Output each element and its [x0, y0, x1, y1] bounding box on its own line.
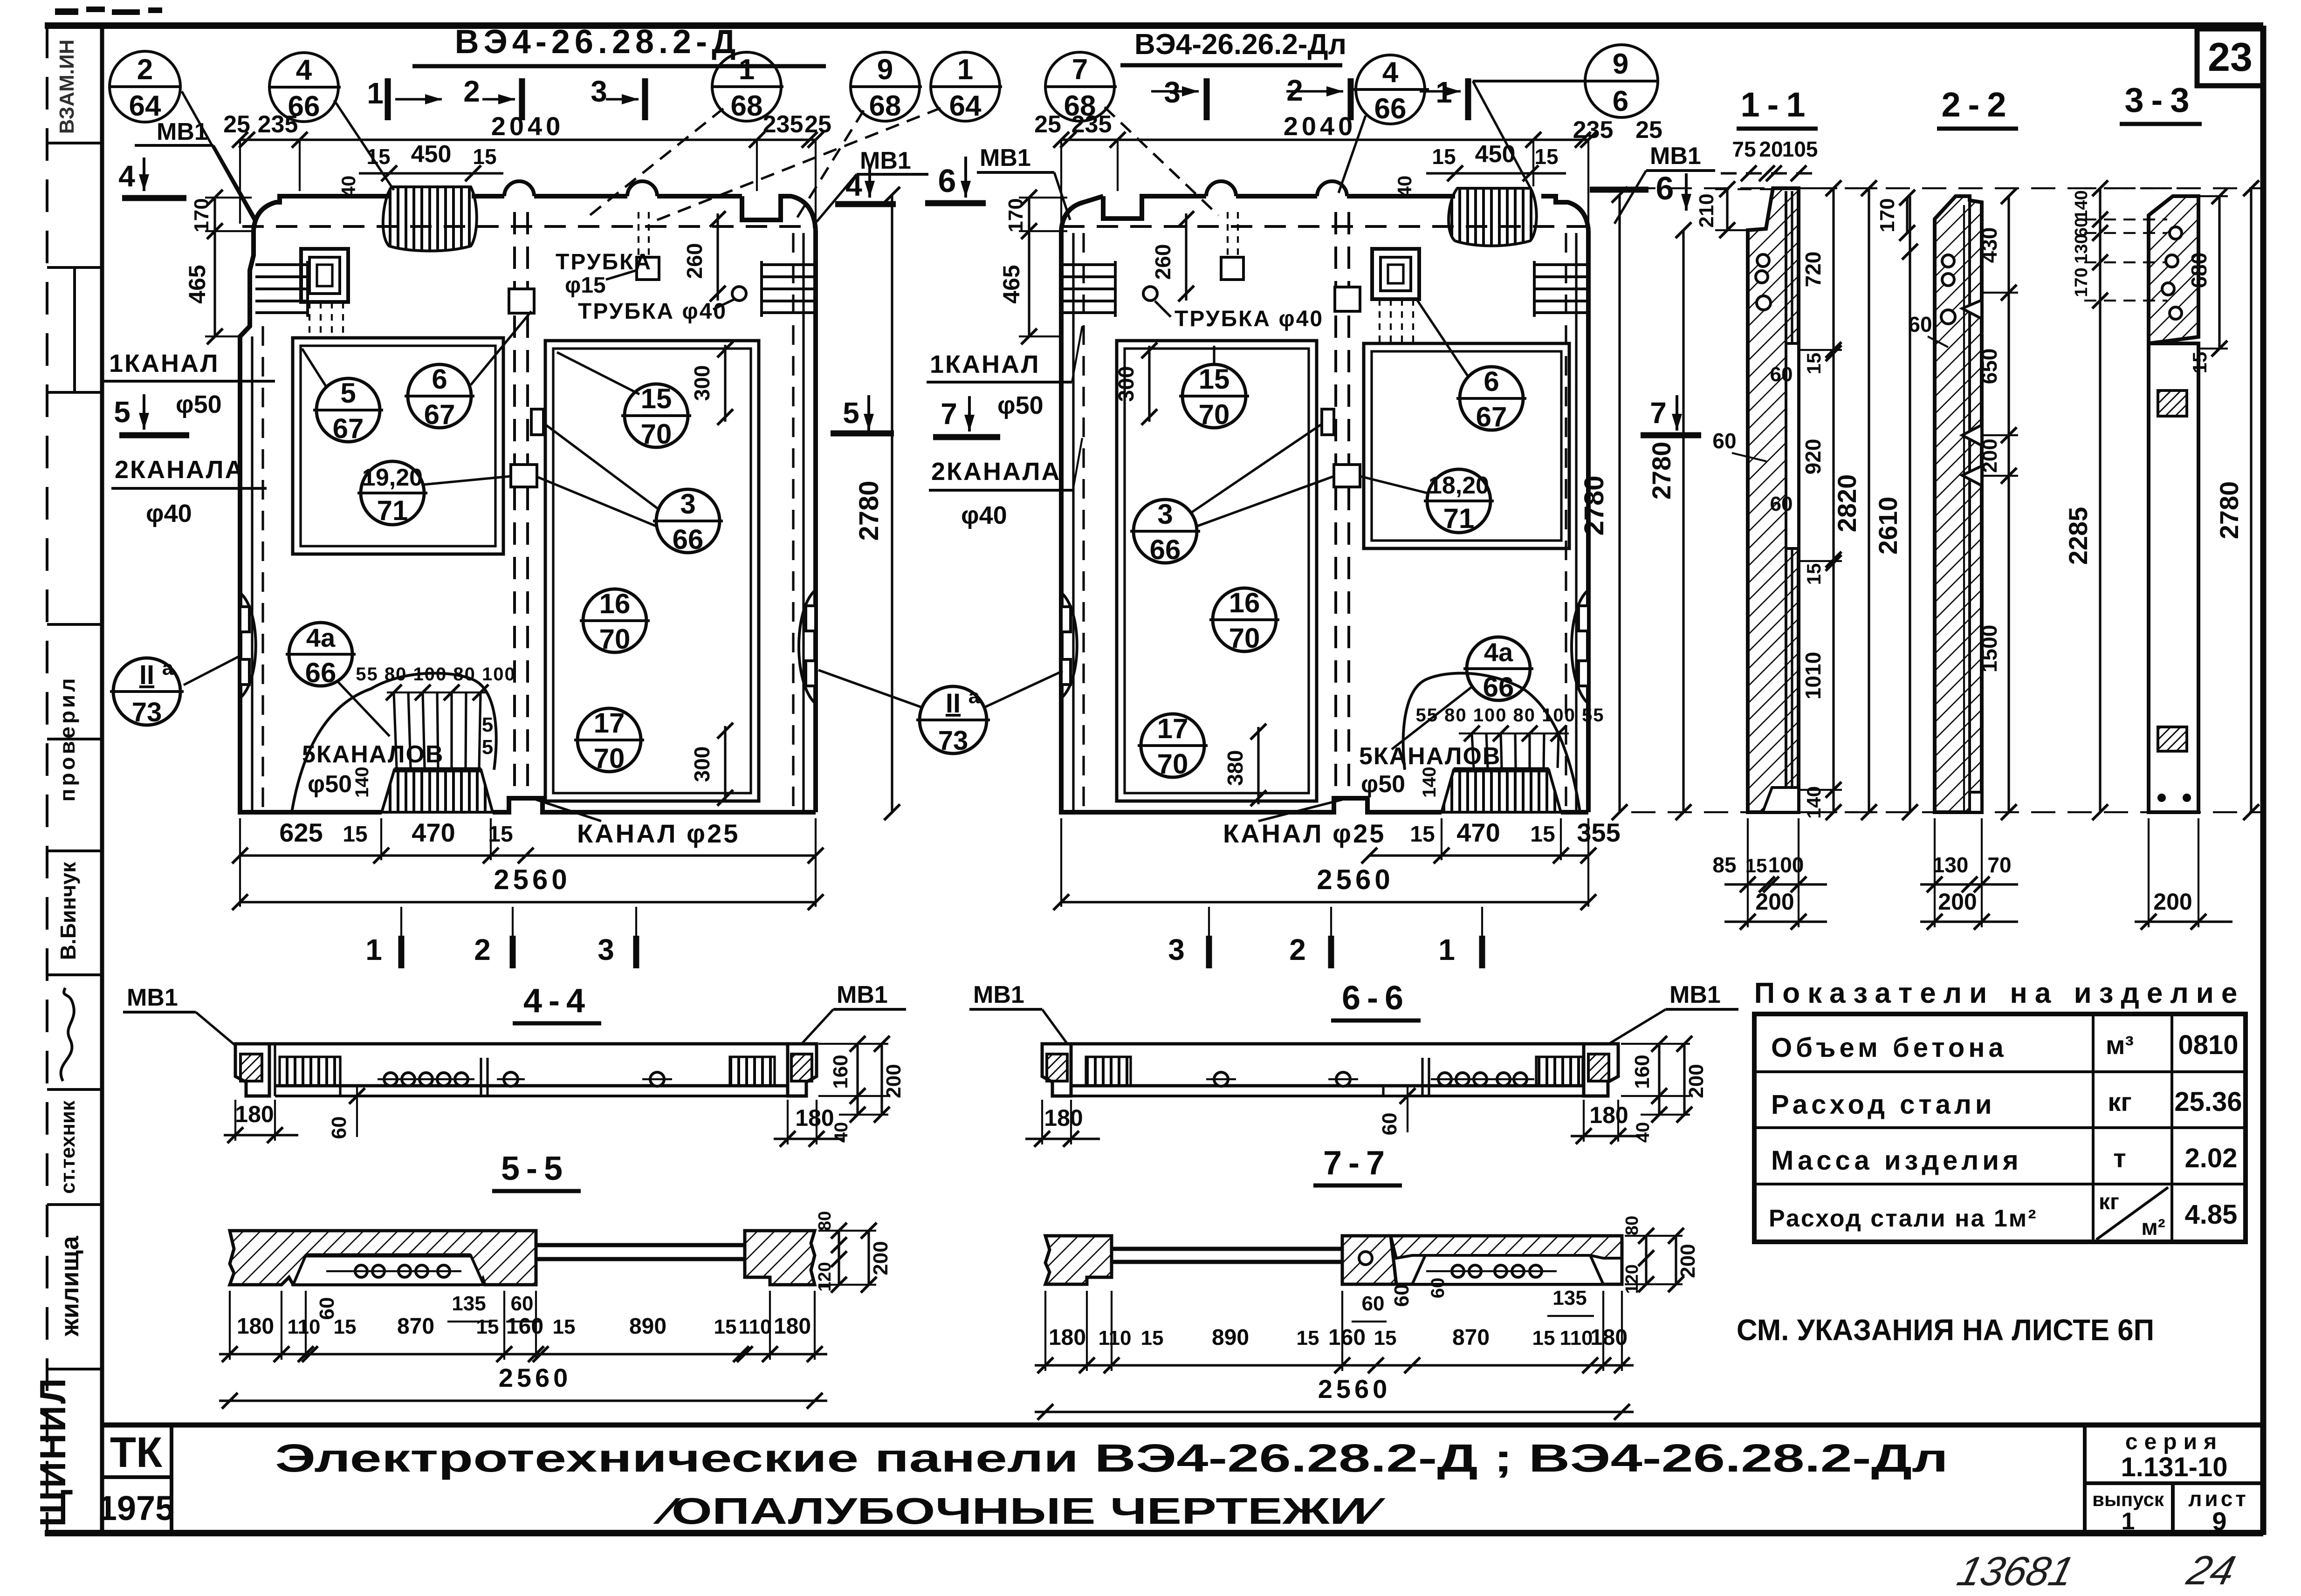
svg-text:66: 66	[1483, 671, 1514, 703]
section 3-3 lower strip	[2149, 343, 2198, 812]
svg-text:300: 300	[1114, 366, 1138, 402]
svg-text:Показатели на изделие: Показатели на изделие	[1754, 977, 2245, 1009]
top section mark 3 (panel1)	[591, 75, 645, 120]
svg-text:т: т	[2113, 1144, 2126, 1173]
svg-text:200: 200	[869, 1241, 892, 1275]
svg-text:64: 64	[129, 90, 161, 122]
svg-text:1975: 1975	[98, 1489, 175, 1528]
section 2-2 right dim stack 430/650/200/1500	[1977, 188, 2018, 820]
svg-text:15: 15	[366, 144, 390, 169]
panel2 dim 260 vertical	[1151, 211, 1194, 301]
panel2 callout IIa/73 middle	[818, 670, 1063, 756]
svg-text:15: 15	[1199, 363, 1230, 395]
panel1 callout 17/70	[574, 707, 644, 774]
svg-text:2: 2	[1289, 933, 1306, 966]
section 3-3 dim 680 right	[2187, 188, 2228, 373]
svg-text:5КАНАЛОВ: 5КАНАЛОВ	[1359, 743, 1501, 770]
svg-text:170: 170	[1876, 198, 1899, 232]
section 1-1 header	[1737, 85, 1818, 129]
svg-text:9: 9	[2212, 1507, 2226, 1536]
svg-text:180: 180	[795, 1105, 834, 1131]
title block top line	[102, 1423, 2263, 1428]
section 6-6 right rib hatch	[1536, 1057, 1583, 1086]
svg-text:235: 235	[1072, 111, 1112, 138]
section 2-2 dim 170	[1876, 190, 1915, 241]
svg-text:180: 180	[1044, 1105, 1083, 1131]
svg-text:1500: 1500	[1977, 625, 2001, 672]
svg-text:6: 6	[938, 163, 956, 199]
panel1 callout IIa/73 left	[110, 656, 240, 727]
svg-text:В.Бинчук: В.Бинчук	[56, 862, 80, 960]
svg-text:80: 80	[815, 1211, 835, 1231]
МВ1 label mid-right (points to panel2 left corner)	[977, 144, 1070, 220]
panel1 dim 300 upper	[690, 342, 733, 425]
page number box 23	[2197, 29, 2263, 86]
panel2 junction box 1	[1335, 287, 1360, 311]
panel2 tube circle Ф40	[1143, 287, 1157, 301]
svg-text:70: 70	[1157, 748, 1188, 780]
svg-text:3: 3	[1168, 933, 1185, 966]
panel2 left edge break bulge	[1061, 593, 1077, 698]
panel2 bottom trapezoid channel fan	[1442, 770, 1561, 812]
svg-text:75: 75	[1732, 137, 1756, 161]
section 7-7 right part with top band	[1391, 1236, 1622, 1284]
section 5-5 right dims 20 80 200	[815, 1211, 892, 1293]
panel2 bottom section marks 3 2 1	[1168, 907, 1482, 968]
section 4-4 dim 60	[328, 1086, 365, 1139]
svg-text:170: 170	[190, 198, 213, 232]
svg-text:200: 200	[1685, 1064, 1708, 1098]
panel1 bottom section marks 1 2 3	[365, 907, 636, 968]
panel2 right edge inner line	[1575, 233, 1577, 812]
svg-text:4: 4	[845, 169, 862, 202]
svg-text:жилища: жилища	[56, 1235, 84, 1336]
section 6-6 dim 180 right	[1571, 1100, 1641, 1144]
panel1 ТРУБКА Ф15 label	[556, 250, 652, 298]
svg-text:Объем бетона: Объем бетона	[1771, 1033, 2007, 1063]
section 3-3 left dim stack 140 60 130 170	[2072, 180, 2172, 322]
section 6-6 left rib hatch	[1086, 1057, 1131, 1086]
svg-text:1: 1	[1438, 933, 1455, 966]
section 3-3 wood insert top	[2158, 390, 2187, 416]
svg-text:25.36: 25.36	[2174, 1087, 2242, 1117]
panel2 callout 16/70	[1209, 587, 1279, 654]
section 2-2 body	[1935, 196, 1982, 812]
section 6-6 strip body	[1071, 1044, 1588, 1096]
panel1 callout 4a/66	[286, 623, 390, 736]
section 4-4 right dims 160/200/40	[818, 1036, 905, 1143]
panel1 bottom trapezoid channel fan	[382, 770, 493, 812]
svg-text:40: 40	[337, 176, 359, 198]
svg-text:16: 16	[599, 588, 631, 619]
svg-text:2: 2	[463, 75, 480, 108]
svg-text:4: 4	[296, 54, 312, 86]
svg-text:450: 450	[1475, 141, 1516, 168]
title block ТК box	[102, 1425, 172, 1533]
panel1 top dim line 2040/235/25	[223, 111, 831, 224]
svg-text:68: 68	[731, 90, 763, 122]
svg-text:КАНАЛ φ25: КАНАЛ φ25	[577, 819, 740, 848]
svg-text:19,20: 19,20	[362, 464, 423, 491]
svg-text:355: 355	[1577, 818, 1620, 847]
section 7-7 dim row	[1035, 1291, 1634, 1373]
section 7-7 right dims 20 80 200	[1622, 1216, 1699, 1294]
panel2 callout 4a/66	[1392, 637, 1533, 749]
svg-text:140: 140	[2072, 190, 2091, 219]
panel1 section mark 5 left	[114, 394, 189, 435]
frame right border	[2260, 26, 2267, 1535]
svg-text:2КАНАЛА: 2КАНАЛА	[115, 456, 245, 484]
svg-text:2560: 2560	[499, 1363, 572, 1392]
svg-text:15: 15	[476, 1315, 499, 1338]
panel2 right edge break bulge	[1572, 590, 1588, 704]
svg-text:15: 15	[2189, 352, 2211, 374]
svg-text:60: 60	[1362, 1292, 1385, 1315]
section mark 6 left	[925, 157, 986, 203]
panel1 top notch semicircle B	[627, 181, 657, 196]
section 2-2 header	[1937, 85, 2018, 129]
section 1-1 bottom dims 85 15 100 / 200	[1712, 818, 1827, 930]
section 6-6 right dims 160/200/40	[1621, 1036, 1708, 1143]
svg-text:120: 120	[1622, 1264, 1642, 1294]
panel1 top-right corner rib lines	[762, 261, 814, 317]
section 2-2 notch top	[1962, 300, 1982, 319]
svg-text:5: 5	[482, 713, 493, 736]
svg-text:φ40: φ40	[146, 500, 192, 527]
section 2-2 dim 2610	[1873, 196, 1918, 820]
panel1 section mark 5 right	[831, 395, 894, 433]
svg-text:73: 73	[132, 697, 162, 727]
svg-text:1010: 1010	[1801, 652, 1825, 699]
svg-text:2285: 2285	[2063, 507, 2093, 565]
svg-text:160: 160	[506, 1314, 543, 1339]
svg-text:120: 120	[815, 1262, 835, 1291]
panel2 dim 300 upper	[1114, 342, 1157, 425]
svg-text:ВЗАМ.ИН: ВЗАМ.ИН	[55, 40, 78, 134]
svg-text:200: 200	[1755, 889, 1794, 915]
svg-text:25: 25	[223, 111, 250, 138]
svg-text:6: 6	[432, 363, 447, 395]
svg-text:55 80 100 80 100: 55 80 100 80 100	[356, 664, 515, 685]
section 7-7 thin band	[1112, 1249, 1342, 1262]
svg-text:60: 60	[1712, 429, 1736, 453]
svg-text:2040: 2040	[491, 111, 564, 141]
panel1 top dashed axis line	[242, 225, 814, 228]
panel1 left edge dashed groove	[261, 326, 264, 811]
svg-text:2780: 2780	[1579, 475, 1609, 535]
svg-text:15: 15	[553, 1315, 576, 1338]
svg-text:4.85: 4.85	[2185, 1199, 2238, 1230]
panel1 bottom dim 2560	[232, 818, 824, 910]
section 5-5 thin band	[536, 1245, 745, 1259]
panel2 section mark 7 right	[1641, 395, 1701, 435]
МВ1 label far right (points to panel2 right corner)	[1614, 143, 1715, 224]
panel1 top channel fan block	[383, 187, 477, 251]
panel2 top dashed axis line	[1063, 225, 1587, 228]
section 5-5 left hatched block	[230, 1231, 536, 1285]
МВ1 label top-left	[135, 118, 257, 221]
section 4-4 МВ1 label left	[123, 984, 237, 1047]
svg-text:МВ1: МВ1	[973, 981, 1024, 1008]
svg-text:70: 70	[1987, 853, 2011, 877]
panel2 ТРУБКА Ф40 label	[1155, 301, 1324, 331]
panel1 fan small dim row 55 80 100 80 100	[356, 664, 515, 759]
panel2 top notch semicircle A	[1206, 181, 1236, 196]
torn edge marks top-left	[55, 7, 162, 15]
svg-text:70: 70	[1199, 399, 1230, 430]
svg-text:260: 260	[1151, 244, 1175, 280]
svg-text:73: 73	[938, 726, 968, 756]
section mark 7 left	[933, 396, 1000, 437]
svg-text:ТРУБКА φ40: ТРУБКА φ40	[578, 299, 727, 324]
svg-text:1: 1	[365, 933, 382, 966]
svg-text:15: 15	[641, 383, 672, 414]
top section mark 1 (panel1)	[367, 76, 442, 120]
panel1 left edge break bulge	[240, 593, 256, 698]
svg-text:1-1: 1-1	[1741, 85, 1813, 124]
section 2-2 notch mid	[1962, 425, 1982, 445]
section 1-1 rebar circles	[1757, 254, 1769, 267]
panel1 bottom dim row 625/15/470/15	[232, 800, 824, 863]
svg-text:67: 67	[1476, 401, 1507, 432]
frame inner-left border	[100, 26, 104, 1533]
svg-text:4a: 4a	[1484, 637, 1513, 667]
svg-text:80: 80	[1622, 1216, 1642, 1235]
panel1 dashed drop from notch B to tube box	[639, 212, 649, 257]
section 1-1 60 labels	[1712, 363, 1793, 515]
svg-text:60: 60	[1390, 1284, 1413, 1307]
svg-text:720: 720	[1801, 252, 1825, 288]
svg-text:465: 465	[998, 265, 1024, 303]
svg-text:МВ1: МВ1	[127, 984, 178, 1011]
section 5-5 dim 2560	[219, 1363, 827, 1409]
panel2 left edge dashed groove	[1082, 233, 1085, 811]
panel2 fan break blob outline	[1403, 673, 1580, 812]
svg-text:II: II	[946, 688, 961, 719]
svg-text:60: 60	[1770, 363, 1793, 386]
section 1-1 dim 2820	[1800, 180, 1877, 820]
panel1 junction box 2	[511, 465, 537, 487]
svg-text:890: 890	[1212, 1325, 1249, 1350]
header ВЭ4-26.26.2-Дл	[1120, 28, 1346, 65]
svg-text:180: 180	[235, 1101, 274, 1127]
panel2 top channel fan block	[1449, 188, 1537, 246]
svg-text:выпуск: выпуск	[2092, 1488, 2164, 1510]
svg-text:180: 180	[1049, 1325, 1086, 1350]
svg-text:φ15: φ15	[565, 273, 606, 298]
panel1 right edge inner line	[802, 233, 804, 812]
section 3-3 top hatched block	[2149, 196, 2198, 343]
section 6-6 hole circles	[1206, 1058, 1534, 1096]
svg-text:105: 105	[1782, 137, 1818, 161]
callout circle 4/66	[269, 53, 394, 190]
svg-text:серия: серия	[2125, 1430, 2223, 1454]
panel1 label 2 КАНАЛА ф40	[111, 456, 267, 527]
panel1 dim 300 lower	[690, 723, 733, 806]
svg-text:66: 66	[673, 524, 704, 555]
svg-text:300: 300	[690, 747, 714, 782]
svg-text:160: 160	[1631, 1055, 1654, 1089]
svg-text:430: 430	[1977, 227, 2001, 263]
svg-text:6: 6	[1613, 85, 1628, 117]
svg-text:235: 235	[1573, 116, 1614, 144]
section 2-2 60 label	[1908, 312, 1948, 347]
section 7-7 left hatched block	[1045, 1236, 1112, 1284]
panel1 top notch semicircle A	[504, 181, 534, 196]
section 1-1 right dim stack 720/15/920/15/1010/140	[1800, 180, 1842, 820]
top section mark 3 (panel2)	[1151, 75, 1207, 120]
svg-text:2780: 2780	[1647, 442, 1676, 500]
svg-text:60: 60	[1428, 1278, 1448, 1299]
panel1 right edge break bulge	[799, 590, 816, 704]
callout circle 1/64	[653, 52, 1002, 222]
section 1-1 bottom foot	[1763, 788, 1799, 812]
svg-text:17: 17	[1157, 713, 1188, 744]
svg-text:2.02: 2.02	[2185, 1143, 2238, 1173]
panel2 junction box 2	[1334, 465, 1360, 487]
panel2 fan small dim row 55 80 100 80 100 55	[1415, 705, 1604, 741]
section 5-5 recess white	[293, 1255, 484, 1285]
panel1 inner rect A	[293, 338, 503, 554]
svg-text:5: 5	[114, 395, 131, 429]
svg-text:9: 9	[1613, 48, 1628, 80]
section 1-1 body	[1748, 188, 1799, 812]
header ВЭ4-26.28.2-Д	[412, 23, 826, 66]
svg-text:15: 15	[1530, 822, 1555, 847]
svg-text:2820: 2820	[1832, 474, 1861, 533]
svg-text:135: 135	[1552, 1287, 1587, 1309]
svg-text:5: 5	[482, 736, 493, 759]
svg-text:140: 140	[1419, 767, 1440, 798]
svg-text:МВ1: МВ1	[980, 144, 1031, 171]
svg-text:200: 200	[1978, 438, 2001, 473]
svg-text:4-4: 4-4	[523, 982, 591, 1020]
svg-text:Масса изделия: Масса изделия	[1771, 1145, 2022, 1176]
frame bottom border	[45, 1530, 2263, 1536]
section 4-4 dim 180 left	[224, 1100, 298, 1143]
section 6-6 dim 60	[1378, 1086, 1415, 1135]
svg-text:60: 60	[1908, 312, 1932, 336]
svg-text:180: 180	[774, 1314, 811, 1339]
panel1 body outline	[240, 196, 816, 812]
stamp column: signature squiggle	[61, 988, 74, 1081]
svg-text:ВЭ4-26.28.2-Д: ВЭ4-26.28.2-Д	[455, 23, 741, 61]
svg-text:7: 7	[1650, 396, 1667, 430]
panel2 top-right corner rib lines	[1534, 261, 1587, 317]
panel1 ТРУБКА Ф40 label	[578, 299, 735, 324]
svg-text:15: 15	[343, 822, 367, 847]
svg-text:200: 200	[1938, 889, 1977, 915]
section 3-3 wood insert bottom	[2158, 727, 2187, 751]
callout circle 2/64	[110, 51, 255, 223]
panel2 left dim 170/465	[998, 190, 1067, 344]
svg-text:650: 650	[1977, 349, 2001, 384]
svg-text:60: 60	[316, 1297, 338, 1320]
svg-text:130: 130	[2072, 234, 2091, 263]
table frame	[1754, 1014, 2246, 1242]
panel1 inner rect B	[545, 341, 759, 801]
svg-text:40: 40	[1394, 176, 1415, 198]
svg-text:890: 890	[629, 1314, 666, 1339]
svg-text:15: 15	[473, 144, 496, 169]
svg-text:160: 160	[1328, 1325, 1366, 1350]
panel2 top notch semicircle B	[1317, 181, 1347, 196]
section 3-3 header	[2120, 81, 2202, 124]
svg-text:200: 200	[1676, 1244, 1699, 1278]
panel1 callout 6/67	[405, 311, 531, 430]
panel1 tube box Ф15	[637, 257, 659, 280]
svg-text:ТРУБКА: ТРУБКА	[556, 250, 652, 274]
panel2 left edge inner line	[1072, 233, 1074, 812]
top section mark 2 (panel1)	[463, 75, 522, 120]
section 5-5 dim row	[219, 1291, 827, 1362]
panel2 tube box Ф15	[1221, 257, 1243, 280]
title block right: серия box	[2085, 1425, 2263, 1533]
svg-text:20: 20	[1759, 137, 1783, 161]
svg-text:15: 15	[1297, 1327, 1319, 1349]
svg-text:3: 3	[1157, 499, 1173, 530]
panel1 tube circle Ф40	[732, 287, 746, 301]
stamp column cell lines	[47, 143, 102, 1369]
section 7-7 middle hatched block	[1342, 1236, 1396, 1284]
svg-text:66: 66	[1150, 534, 1181, 565]
svg-text:2780: 2780	[854, 480, 884, 541]
panel1 callout 15/70	[557, 352, 691, 450]
callout circle 7/68	[1045, 52, 1218, 215]
svg-text:470: 470	[1456, 818, 1500, 847]
section 4-4 left rib hatch	[280, 1057, 340, 1086]
svg-text:235: 235	[763, 111, 804, 138]
section 4-4 strip body	[269, 1044, 788, 1096]
svg-text:110: 110	[1099, 1327, 1132, 1349]
svg-text:18,20: 18,20	[1429, 472, 1489, 499]
svg-text:II: II	[139, 660, 154, 690]
section mark 4 right	[835, 164, 896, 204]
panel2 МВ1 embed pad (nested squares)	[1372, 249, 1419, 299]
svg-text:проверил: проверил	[55, 676, 79, 802]
section 1-1 dim 75 20 105	[1721, 137, 1818, 181]
svg-text:15: 15	[1374, 1327, 1397, 1349]
svg-text:∕ОПАЛУБОЧНЫЕ ЧЕРТЕЖИ∕: ∕ОПАЛУБОЧНЫЕ ЧЕРТЕЖИ∕	[653, 1490, 1386, 1532]
panel2 inner rect A (tall left)	[1117, 341, 1317, 801]
svg-text:м³: м³	[2106, 1030, 2134, 1060]
section 7-7 header	[1313, 1144, 1402, 1185]
svg-text:6: 6	[1484, 366, 1499, 397]
svg-text:200: 200	[2153, 889, 2192, 915]
svg-text:0810: 0810	[2178, 1030, 2238, 1060]
panel1 fan lines above trapezoid	[394, 692, 481, 768]
section 6-6 left end block with plate	[1042, 1044, 1071, 1096]
panel2 right edge dashed groove	[1565, 233, 1567, 811]
panel2 fan lines above trapezoid	[1472, 733, 1559, 768]
svg-text:Расход стали на 1м²: Расход стали на 1м²	[1769, 1205, 2038, 1232]
section 6-6 right end block with plate	[1584, 1044, 1618, 1096]
svg-text:66: 66	[305, 657, 337, 688]
svg-text:ТРУБКА φ40: ТРУБКА φ40	[1175, 307, 1324, 331]
panel2 narrow box	[1322, 409, 1334, 435]
svg-text:2-2: 2-2	[1942, 85, 2014, 124]
svg-text:15: 15	[1410, 822, 1435, 847]
panel2 5 КАНАЛОВ label	[1359, 743, 1501, 798]
svg-text:135: 135	[452, 1292, 486, 1315]
svg-text:СМ. УКАЗАНИЯ НА ЛИСТЕ 6П: СМ. УКАЗАНИЯ НА ЛИСТЕ 6П	[1737, 1313, 2154, 1347]
svg-text:180: 180	[237, 1314, 274, 1339]
panel2 bottom dim row 15/470/15/355	[1223, 800, 1621, 863]
svg-text:66: 66	[1374, 93, 1407, 125]
svg-text:3: 3	[598, 933, 614, 966]
svg-text:70: 70	[641, 418, 672, 450]
panel2 callout 6/67	[1416, 298, 1526, 432]
